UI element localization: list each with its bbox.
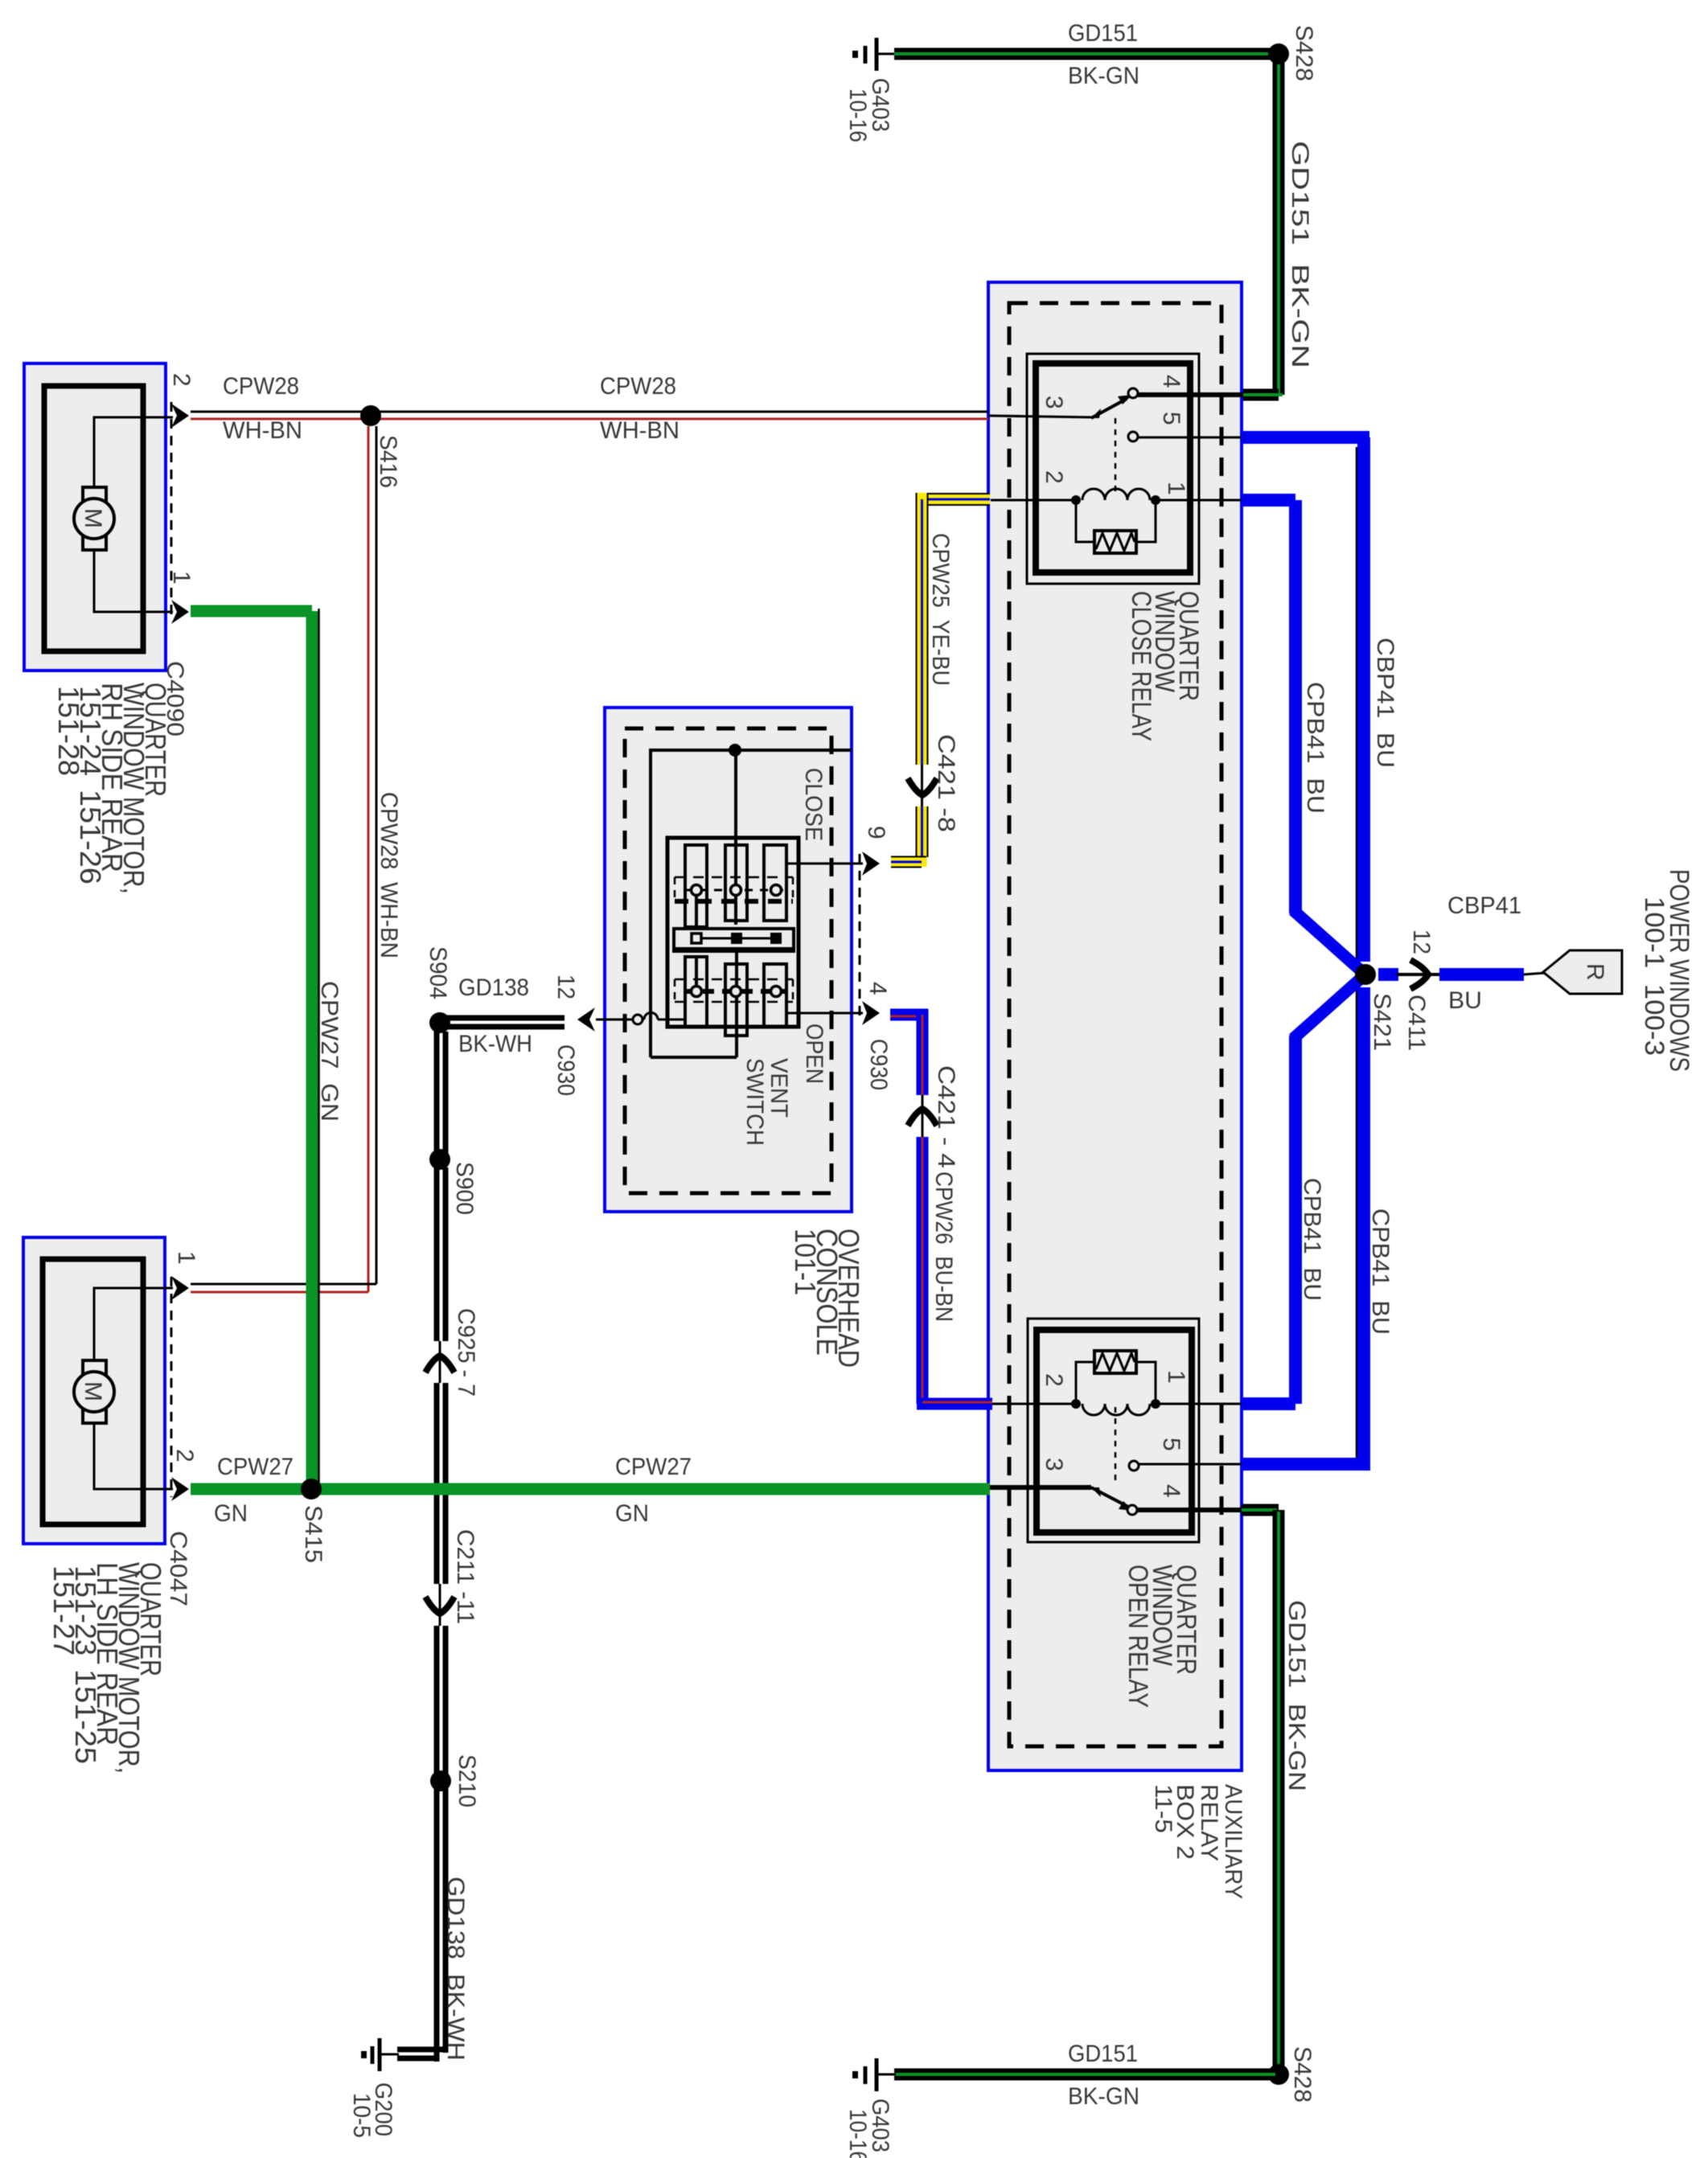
- wiper bar: [672, 929, 795, 950]
- junction S428 (bottom): [1268, 2064, 1289, 2085]
- wire GD138 BK-WH horizontal from vent pin12: [442, 1018, 565, 1027]
- wire GD151 BK-GN bottom horizontal: [894, 2069, 1275, 2081]
- wire CBP41 BU middle vertical upper: [1357, 437, 1370, 962]
- resistor (top relay, parallel with coil): [1076, 505, 1156, 553]
- overhead console box (blue): [605, 708, 852, 1212]
- svg-text:2: 2: [168, 373, 195, 387]
- common wrap line (bottom): [651, 1056, 737, 1059]
- detent dashed strip (bottom): [675, 979, 793, 1002]
- svg-text:C411: C411: [1403, 995, 1430, 1051]
- wire CPW25 YE-BU horizontal from relay pin2: [917, 494, 990, 505]
- wire CPB41 BU middle vertical lower: [1357, 987, 1370, 1464]
- svg-text:12: 12: [552, 974, 579, 999]
- svg-text:1: 1: [1163, 482, 1189, 495]
- svg-text:C925 - 7: C925 - 7: [453, 1308, 479, 1397]
- svg-text:CPW26 BU-BN: CPW26 BU-BN: [930, 1171, 957, 1322]
- wire GD138 BK-WH vertical (C925-7 to C211-11): [437, 1383, 445, 1584]
- dashed rect inside overhead console: [625, 728, 831, 1193]
- svg-text:11-5: 11-5: [1150, 1784, 1176, 1833]
- resistor (bottom relay): [1076, 1351, 1156, 1399]
- svg-text:M: M: [80, 508, 106, 528]
- svg-text:151-26: 151-26: [74, 790, 107, 884]
- pin 3 wire into bottom relay (from CPW27): [990, 1485, 1091, 1490]
- wire GD151 BK-GN from bottom relay pin4: [1242, 1510, 1279, 2069]
- pin 2 arrow (LH motor): [171, 1477, 189, 1501]
- svg-text:SWITCH: SWITCH: [741, 1058, 768, 1146]
- svg-text:S416: S416: [375, 435, 401, 488]
- svg-text:CPB41 BU: CPB41 BU: [1299, 1178, 1325, 1301]
- wire CPW26 BU-BN vertical upper: [917, 1009, 929, 1095]
- svg-text:GD151: GD151: [1068, 20, 1138, 47]
- diagonal CPB41 to S421: [1293, 910, 1367, 976]
- svg-text:M: M: [80, 1381, 106, 1401]
- contact rect bottom-left: [685, 957, 707, 1027]
- wire CPB41 BU pin1 bottom relay horizontal: [1242, 1397, 1295, 1410]
- svg-text:CPW27: CPW27: [615, 1454, 692, 1480]
- terminal R flag: [1543, 950, 1622, 994]
- relay inner thick rect: [1036, 363, 1190, 572]
- pin 1 wire (bottom relay to blue): [1156, 1403, 1245, 1405]
- svg-text:S900: S900: [451, 1162, 478, 1215]
- motor box LH (blue): [23, 1237, 165, 1544]
- svg-text:9: 9: [863, 826, 889, 839]
- pin 4 contact circle: [1128, 388, 1138, 398]
- svg-text:CPB41 BU: CPB41 BU: [1302, 682, 1328, 814]
- svg-text:5: 5: [1158, 412, 1185, 425]
- pin 9 wire (CLOSE output): [786, 863, 863, 865]
- contact rect top-right: [764, 845, 786, 921]
- wire CPB41 BU left vertical upper: [1289, 500, 1302, 913]
- pin 1 arrow (RH motor): [171, 600, 189, 624]
- svg-text:CLOSE RELAY: CLOSE RELAY: [1126, 591, 1156, 741]
- svg-text:CPW25 YE-BU: CPW25 YE-BU: [927, 533, 954, 686]
- stem bar to bottom wrap: [735, 952, 738, 1057]
- black line to R terminal: [1524, 973, 1546, 974]
- wire CPW26 BU-BN vertical lower: [917, 1137, 929, 1404]
- svg-text:OPEN RELAY: OPEN RELAY: [1123, 1565, 1153, 1708]
- svg-text:CPB41 BU: CPB41 BU: [1367, 1208, 1394, 1335]
- svg-text:GD151 BK-GN: GD151 BK-GN: [1283, 1600, 1310, 1791]
- motor inner rect LH: [43, 1259, 143, 1524]
- svg-text:GD138 BK-WH: GD138 BK-WH: [442, 1877, 469, 2061]
- svg-text:OPEN: OPEN: [801, 1024, 827, 1084]
- contact circles (top row): [692, 885, 702, 896]
- connector dashed line C930 right: [859, 854, 861, 1021]
- svg-text:C421 -8: C421 -8: [933, 734, 959, 832]
- svg-text:C930: C930: [865, 1039, 892, 1090]
- svg-text:C4047: C4047: [165, 1531, 191, 1606]
- svg-text:1: 1: [173, 1251, 199, 1265]
- pin 5 wire (bottom relay): [1139, 1463, 1245, 1466]
- svg-text:C421 - 4: C421 - 4: [933, 1065, 959, 1168]
- svg-text:CPW27 GN: CPW27 GN: [316, 981, 343, 1122]
- wire CPB41 BU pin1 top relay horizontal: [1242, 494, 1295, 507]
- pin 5 contact circle (bottom relay): [1129, 1461, 1139, 1471]
- contact rect top-mid: [725, 845, 747, 921]
- diagonal S421 to lower CPB41: [1293, 973, 1367, 1039]
- pin 2 wire (bottom relay coil left): [992, 1403, 1076, 1405]
- svg-text:S428: S428: [1291, 25, 1317, 81]
- pin 1 wire (coil right to blue): [1156, 499, 1245, 502]
- svg-text:151-25: 151-25: [69, 1669, 102, 1764]
- blue stub right of S421: [1378, 968, 1398, 981]
- svg-text:151-28: 151-28: [52, 686, 85, 776]
- svg-text:CPW28 WH-BN: CPW28 WH-BN: [376, 792, 402, 958]
- svg-text:10-16: 10-16: [844, 88, 871, 142]
- pin 12 arrow: [577, 1007, 595, 1032]
- pin 9 arrow: [862, 851, 880, 876]
- inline connector C411 (arrow): [1397, 960, 1440, 989]
- wire GD151 BK-GN right vertical (top): [1242, 63, 1283, 395]
- svg-text:1: 1: [1163, 1370, 1189, 1384]
- junction S904: [429, 1012, 450, 1033]
- svg-text:101-1: 101-1: [789, 1229, 822, 1295]
- svg-text:CBP41 BU: CBP41 BU: [1372, 638, 1398, 768]
- svg-text:C930: C930: [552, 1044, 579, 1096]
- svg-text:10-16: 10-16: [844, 2109, 871, 2158]
- inline connector C421-4: [908, 1095, 937, 1137]
- svg-text:100-1 100-3: 100-1 100-3: [1639, 896, 1669, 1056]
- svg-text:4: 4: [864, 982, 891, 995]
- wire CPW28 WH-BN vertical (S416 to LH motor): [191, 426, 376, 1292]
- svg-text:R: R: [1582, 963, 1608, 981]
- wire CPW25 YE-BU vertical upper: [917, 493, 928, 765]
- svg-text:GN: GN: [214, 1500, 248, 1527]
- svg-text:WH-BN: WH-BN: [223, 417, 302, 444]
- svg-text:S421: S421: [1369, 993, 1395, 1051]
- svg-text:S415: S415: [300, 1505, 326, 1563]
- dashed rect inside aux relay box: [1009, 303, 1221, 1746]
- pin 5 contact circle: [1128, 432, 1138, 441]
- svg-text:CPW28: CPW28: [600, 373, 676, 400]
- svg-text:2: 2: [171, 1449, 198, 1463]
- svg-text:CPW28: CPW28: [223, 373, 299, 400]
- svg-text:2: 2: [1041, 1373, 1067, 1387]
- junction dot on vent top line: [729, 744, 741, 757]
- svg-text:C211 -11: C211 -11: [452, 1529, 478, 1624]
- dashed actuator link (bottom relay): [1115, 1407, 1117, 1486]
- switch blade pin3 to pin4: [1091, 399, 1127, 418]
- pin 1 arrow (LH motor): [171, 1276, 189, 1300]
- ground G403 (top): [852, 38, 896, 71]
- thin black line right of CPW27 vertical: [318, 609, 320, 1484]
- pin 5 wire to blue: [1138, 437, 1245, 439]
- wire CPW25 YE-BU horizontal to vent pin 9: [891, 857, 926, 868]
- svg-text:2: 2: [1041, 470, 1067, 484]
- svg-text:3: 3: [1041, 1458, 1067, 1471]
- wire CBP41 BU pin5 top relay horizontal: [1242, 431, 1369, 444]
- svg-text:VENT: VENT: [766, 1058, 792, 1118]
- svg-text:12: 12: [1408, 929, 1435, 954]
- pin 4 wire (bottom relay to BK-GN): [1137, 1508, 1243, 1512]
- thin black line under middle blue vertical: [1356, 447, 1358, 1458]
- wire CPB41 BU left vertical lower: [1289, 1036, 1302, 1404]
- contact rect top-left: [685, 845, 707, 927]
- svg-text:AUXILIARY: AUXILIARY: [1220, 1784, 1246, 1899]
- svg-text:1: 1: [168, 571, 195, 585]
- wire CBP41 BU horizontal to R: [1439, 968, 1524, 981]
- junction S428 (top): [1268, 43, 1289, 64]
- vent switch common line (top): [651, 750, 852, 1057]
- svg-text:GD151 BK-GN: GD151 BK-GN: [1287, 141, 1313, 368]
- junction S210: [430, 1770, 451, 1791]
- dashed actuator link (top relay): [1115, 418, 1117, 497]
- wire CPW25 YE-BU vertical lower: [917, 806, 928, 868]
- vent switch outer rect: [667, 838, 799, 1027]
- svg-text:GD151: GD151: [1068, 2041, 1138, 2067]
- junction S900: [429, 1149, 450, 1170]
- wire CPW28 WH-BN horizontal (motor to relay): [191, 412, 988, 419]
- wire CPW27 GN horizontal (LH motor to bottom relay): [191, 1483, 990, 1495]
- svg-text:BK-GN: BK-GN: [1068, 2083, 1139, 2110]
- wire CPW27 GN from RH motor pin 1: [191, 611, 312, 1489]
- connector dashed line C4047: [170, 1277, 173, 1497]
- inline connector C925-7: [425, 1341, 454, 1383]
- pin 3 wire into relay (from CPW28): [988, 416, 1091, 417]
- pin 2 arrow (RH motor): [171, 404, 189, 428]
- wire GD138 BK-WH vertical (S210 to bottom corner): [397, 1787, 445, 2062]
- contact rect bottom-right: [764, 964, 786, 1027]
- svg-text:BK-WH: BK-WH: [458, 1031, 532, 1057]
- junction S415: [301, 1479, 322, 1500]
- contact circles (bottom row): [692, 987, 702, 997]
- coil (top relay): [1071, 489, 1160, 505]
- wire CPW26 BU-BN horizontal into bottom relay pin 2: [917, 1398, 992, 1410]
- svg-text:3: 3: [1041, 396, 1067, 409]
- connector dashed line C4090: [170, 402, 173, 622]
- ground G403 (bottom): [852, 2058, 896, 2091]
- wire GD138 BK-WH vertical (C211-11 to S210): [437, 1626, 445, 1775]
- detent dashed strip (top): [675, 877, 793, 901]
- svg-text:GD138: GD138: [458, 974, 529, 1001]
- pin 12 wire with hop: [596, 1013, 685, 1025]
- relay outer rect (bottom): [1028, 1319, 1199, 1542]
- svg-text:S428: S428: [1289, 2046, 1316, 2103]
- svg-text:RELAY: RELAY: [1196, 1784, 1222, 1861]
- coil (bottom relay): [1071, 1399, 1160, 1415]
- svg-text:GN: GN: [615, 1500, 649, 1527]
- pin 4 wire (OPEN output): [786, 1012, 863, 1015]
- pin 4 arrow: [862, 1001, 880, 1025]
- pin 4 contact circle (bottom relay): [1127, 1505, 1137, 1515]
- relay outer rect: [1027, 354, 1199, 584]
- stem from top line through mid contact: [734, 750, 737, 925]
- svg-text:5: 5: [1158, 1438, 1185, 1451]
- svg-text:BU: BU: [1448, 987, 1482, 1014]
- junction S416: [360, 405, 381, 426]
- contact rect bottom-mid: [725, 964, 747, 1036]
- svg-text:CLOSE: CLOSE: [800, 768, 827, 841]
- pin 2 wire (coil left): [991, 499, 1076, 502]
- wire GD138 BK-WH vertical (S900 to C925-7): [437, 1167, 445, 1341]
- wire GD138 BK-WH vertical (S904 to S900): [437, 1032, 445, 1155]
- wire CPB41 BU pin5 bottom relay horizontal: [1242, 1458, 1370, 1471]
- svg-text:CBP41: CBP41: [1447, 892, 1521, 919]
- svg-text:151-27: 151-27: [47, 1565, 80, 1655]
- svg-text:S210: S210: [454, 1754, 480, 1807]
- auxiliary relay box 2 (blue box): [988, 282, 1242, 1770]
- switch blade pin3 to pin4 (bottom relay): [1091, 1487, 1128, 1507]
- wire CPW26 BU-BN horizontal from vent pin 4: [890, 1009, 928, 1021]
- svg-text:S904: S904: [425, 946, 451, 999]
- svg-text:CPW27: CPW27: [217, 1454, 294, 1480]
- inline connector C211-11: [425, 1584, 454, 1626]
- relay inner thick rect (bottom): [1037, 1330, 1192, 1532]
- wire GD151 BK-GN top horizontal: [894, 48, 1275, 60]
- svg-text:BK-GN: BK-GN: [1068, 63, 1139, 89]
- svg-text:4: 4: [1158, 375, 1185, 388]
- svg-text:WH-BN: WH-BN: [600, 417, 680, 444]
- svg-text:4: 4: [1158, 1484, 1185, 1498]
- inner contact stems: [695, 892, 698, 927]
- motor inner rect RH: [44, 386, 143, 651]
- inline connector C421-8: [908, 765, 937, 806]
- motor M symbol LH: [74, 1360, 114, 1423]
- motor box RH (blue): [24, 363, 166, 671]
- pin 4 wire (thick black to BK-GN): [1138, 392, 1243, 397]
- motor RH internal wires: [94, 417, 173, 487]
- motor LH internal wires: [94, 1288, 173, 1360]
- svg-text:10-5: 10-5: [348, 2093, 375, 2138]
- ground G200: [361, 2038, 399, 2071]
- junction S421: [1355, 964, 1376, 985]
- motor M symbol RH: [74, 487, 114, 550]
